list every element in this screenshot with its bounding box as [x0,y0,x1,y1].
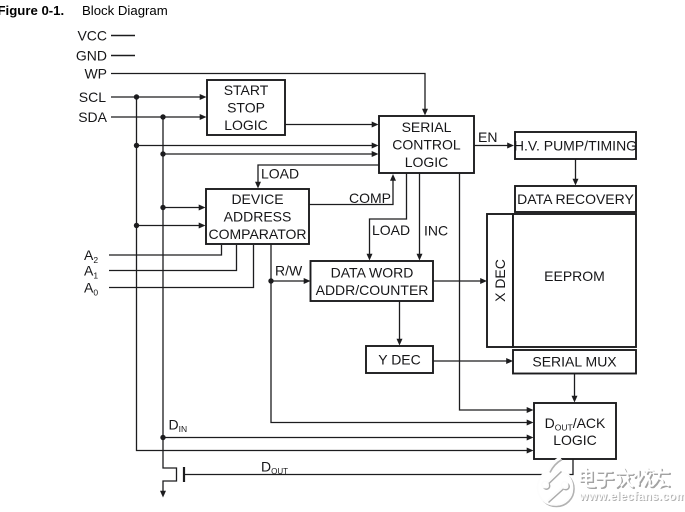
svg-text:DATA RECOVERY: DATA RECOVERY [517,191,634,207]
svg-text:LOAD: LOAD [372,222,410,238]
svg-text:GND: GND [76,48,107,64]
svg-text:INC: INC [424,223,448,239]
svg-text:WP: WP [84,66,107,82]
svg-text:VCC: VCC [77,28,107,44]
svg-text:R/W: R/W [275,263,303,279]
svg-text:STARTSTOPLOGIC: STARTSTOPLOGIC [224,82,269,133]
svg-text:SCL: SCL [79,89,106,105]
svg-text:EEPROM: EEPROM [544,268,605,284]
svg-text:SDA: SDA [78,109,107,125]
svg-text:Block Diagram: Block Diagram [82,3,168,18]
svg-text:www.elecfans.com: www.elecfans.com [579,491,685,503]
svg-text:Figure 0-1.: Figure 0-1. [0,3,64,18]
svg-text:H.V. PUMP/TIMING: H.V. PUMP/TIMING [514,138,637,154]
svg-text:LOAD: LOAD [261,166,299,182]
svg-text:Y DEC: Y DEC [378,352,421,368]
svg-text:DATA WORDADDR/COUNTER: DATA WORDADDR/COUNTER [316,264,429,298]
svg-text:SERIAL MUX: SERIAL MUX [532,354,617,370]
svg-text:X DEC: X DEC [492,259,508,302]
svg-text:COMP: COMP [349,190,391,206]
svg-text:DOUT/ACK: DOUT/ACK [545,415,606,433]
svg-text:EN: EN [478,129,497,145]
svg-text:LOGIC: LOGIC [553,432,597,448]
